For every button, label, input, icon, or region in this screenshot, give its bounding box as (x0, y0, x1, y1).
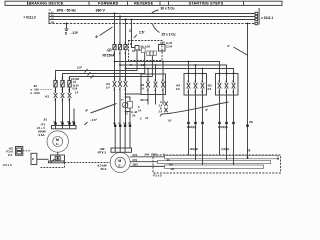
resistor grid bar 3 (165, 165, 264, 168)
tap to contactor K4 pole2 (195, 65, 197, 74)
terminal 2W (124, 125, 126, 127)
node ammeter return (125, 111, 127, 113)
right side labels (140, 44, 253, 178)
feeder column 3 below Q1 (125, 51, 127, 82)
svg-text:-F1 x 5: -F1 x 5 (153, 174, 163, 178)
dashed link A to B (23, 150, 31, 152)
resistor bank dashed enclosure (153, 155, 281, 173)
fuse-switch Q1 drop L2 (119, 17, 121, 45)
svg-text:.4A: .4A (140, 45, 144, 48)
node K2rev tap1 (147, 68, 149, 70)
node feeder2 (119, 64, 121, 66)
svg-text:NT150A: NT150A (103, 54, 116, 58)
K2rev pole 3 (161, 62, 165, 105)
node feeder3 (125, 68, 127, 70)
terminal K2 out1 (218, 122, 220, 124)
tap to contactor K4 pole1 (188, 62, 190, 74)
brake wires fuse to K1 (56, 87, 70, 93)
feeder column 1 below Q1 (114, 51, 116, 82)
node K2 box top2 (226, 73, 228, 75)
svg-text:380 V: 380 V (96, 9, 106, 13)
brake magnet dot (57, 157, 59, 159)
svg-text:STARTING STEPS: STARTING STEPS (189, 1, 224, 5)
node K2rev tap3 (162, 61, 164, 63)
leader 30x5 Cu (152, 10, 159, 14)
node PE tap (66, 23, 68, 25)
leader 25x3 Cu (153, 24, 160, 33)
K2 output wires (220, 95, 234, 122)
brake branch labels (3, 65, 97, 167)
brake feeder wire c (70, 77, 153, 81)
svg-text:·PTX 3: ·PTX 3 (97, 151, 106, 155)
fuse Q1 pole 3 (124, 45, 127, 50)
svg-text:2.6: 2.6 (208, 87, 212, 91)
contactor K1 brake contacts (54, 93, 74, 123)
svg-text:-K1: -K1 (45, 94, 50, 98)
svg-text:C.: C. (138, 107, 141, 109)
wires K1 to terminals M2 (115, 87, 126, 125)
control box labels (130, 41, 173, 67)
contactor K2 reverse box (141, 74, 166, 95)
svg-text:2U1: 2U1 (133, 153, 138, 157)
left bus bracket bar (48, 12, 50, 24)
node K4 tap2 (195, 64, 197, 66)
ammeter branch wire (126, 93, 142, 95)
node K4 box top2 (195, 73, 197, 75)
junction box B (31, 153, 37, 164)
brake magnet stem (57, 152, 59, 155)
rotor wire 2U1 (130, 156, 164, 158)
svg-text:2.4: 2.4 (106, 86, 110, 90)
svg-text:6²: 6² (86, 109, 89, 113)
rectifier box A (16, 147, 23, 156)
brake feeder gauge slashes (85, 69, 94, 79)
control unit dashed enclosure (129, 41, 163, 61)
svg-text:-D: -D (130, 43, 133, 46)
svg-text:(-A): (-A) (161, 41, 165, 44)
svg-text:-U: -U (163, 153, 166, 157)
terminal U1 (54, 122, 56, 124)
feeder column 2 below Q1 (119, 51, 121, 82)
brake magnet box (51, 155, 65, 161)
svg-text:2.5²: 2.5² (77, 65, 82, 69)
wires terminals to strip M2 (115, 127, 130, 148)
svg-text:30A 11: 30A 11 (140, 99, 148, 102)
control relay box (141, 48, 145, 53)
svg-text:30 x 5 Cu: 30 x 5 Cu (161, 7, 175, 11)
node Q1/L3 (125, 19, 127, 21)
wires outputs to resistor bank K2 (220, 125, 234, 166)
ammeter tap wire (126, 97, 131, 101)
earth tap D (65, 24, 69, 31)
svg-text:3~: 3~ (118, 163, 122, 167)
motor M1 inner circle (53, 137, 63, 147)
node K2rev tap2 (155, 64, 157, 66)
header title bar (5, 1, 282, 5)
right bus terminal marks (255, 8, 259, 25)
node PE end (247, 157, 249, 159)
fuse Q1 pole 2 (118, 45, 121, 50)
terminal K4 out2 (194, 122, 196, 124)
aux contact 2.4 lower (164, 108, 167, 113)
ammeter box (128, 101, 133, 108)
svg-text:- 2.5²: - 2.5² (90, 118, 97, 122)
resistor grid bar 2 (158, 160, 271, 163)
brake feeder wire b (63, 74, 145, 81)
motor M1 circle (47, 131, 68, 152)
svg-text:2A: 2A (132, 114, 135, 117)
svg-text:12.5A: 12.5A (73, 84, 79, 87)
fuse-switch Q1 drop L3 (125, 20, 127, 45)
node ammeter branch (125, 93, 127, 95)
svg-text:6²: 6² (130, 63, 132, 67)
wire C into control box (132, 41, 136, 48)
branch feeder phase 1 to contactors (115, 62, 220, 74)
tap to contactor K4 pole3 (202, 69, 204, 74)
node PE right (247, 23, 249, 25)
terminal K2 out3 (232, 122, 234, 124)
svg-text:6²: 6² (206, 108, 209, 112)
svg-text:4A: 4A (132, 50, 135, 53)
svg-text:2.4: 2.4 (159, 104, 163, 107)
wire B to brake (37, 158, 49, 160)
svg-text:·P1: ·P1 (41, 123, 46, 127)
svg-text:-V1: -V1 (166, 159, 170, 162)
node K4 tap3 (202, 68, 204, 70)
svg-text:2.5²: 2.5² (139, 30, 145, 34)
K2 pole 2 (225, 74, 229, 96)
svg-text:= 0111.1: = 0111.1 (261, 16, 273, 20)
node K2 box top3 (233, 73, 235, 75)
busbar L3 (49, 19, 255, 21)
svg-text:-63: -63 (33, 84, 37, 88)
terminal 2U (114, 125, 116, 127)
K2rev pole 2 (154, 65, 158, 105)
gauge tick at M1 terminals (85, 122, 88, 125)
svg-text:20 A: 20 A (101, 167, 108, 171)
junction dots (66, 13, 249, 113)
svg-text:2V1: 2V1 (133, 158, 138, 162)
branch feeder phase 3 to contactors (126, 69, 234, 74)
svg-text:2.6: 2.6 (176, 87, 180, 91)
svg-text:25 x 3 Cu: 25 x 3 Cu (162, 32, 176, 36)
terminal 2V (119, 125, 121, 127)
K4 pole 3 (201, 74, 205, 96)
svg-text:- 2.5²: - 2.5² (140, 63, 146, 67)
node K2 box top1 (219, 73, 221, 75)
terminal V1 (61, 122, 63, 124)
ammeter return stub (126, 111, 131, 113)
terminal K2 out2 (225, 122, 227, 124)
motor M2 circle (110, 153, 130, 173)
svg-text:PE: PE (247, 149, 251, 153)
svg-text:BRAKING DEVICE: BRAKING DEVICE (28, 1, 63, 5)
svg-text:-F1 x 5: -F1 x 5 (3, 163, 13, 167)
phase labels at bus start (51, 12, 54, 24)
resistor grid bar 1 (165, 155, 279, 158)
gauge slash M2 feeder (91, 104, 117, 114)
control transformer box (135, 46, 139, 51)
svg-text:= 0111.3: = 0111.3 (24, 16, 36, 20)
busbar L2 (49, 16, 255, 18)
right terminal squares (187, 73, 279, 160)
branch feeder phase 2 to contactors (120, 65, 227, 74)
svg-text:FORWARD: FORWARD (98, 1, 119, 5)
svg-text:1Z1(3)1a: 1Z1(3)1a (218, 126, 228, 129)
motor M2 terminal strip (111, 148, 132, 152)
M2 terminal squares (114, 125, 131, 127)
pin numbers Q1 bottom (114, 52, 127, 55)
brake fuse F3 pole2 (61, 81, 64, 88)
aux contact 2.4 upper (164, 102, 167, 107)
ammeter bottom wire (129, 108, 131, 125)
svg-text:a - 10A: a - 10A (31, 87, 40, 91)
wire transformer to relay (139, 49, 141, 51)
motor M2 inner circle (115, 157, 125, 167)
wire control out 3 (151, 56, 153, 77)
svg-text:1.6²: 1.6² (168, 118, 172, 122)
svg-text:-R1: -R1 (171, 168, 176, 171)
svg-text:REVERSE: REVERSE (134, 1, 153, 5)
node K4 box top3 (202, 73, 204, 75)
node C/L3 (131, 19, 133, 21)
svg-text:17(1)18: 17(1)18 (71, 79, 80, 81)
wire control out 1 (136, 50, 138, 71)
brake magnet core (55, 156, 60, 160)
K4 pole 2 (194, 74, 198, 96)
svg-text:0.5A: 0.5A (73, 88, 78, 91)
contactor K1 main contacts (113, 81, 128, 87)
contactor K2 box (216, 74, 239, 96)
terminal PE right (246, 125, 248, 127)
wire control out 2 (144, 53, 146, 74)
svg-text:2.4: 2.4 (159, 111, 163, 114)
rotor wire 2V1 (130, 161, 157, 163)
svg-text:-K2: -K2 (207, 84, 212, 88)
PE gauge leader (234, 47, 248, 55)
svg-text:3~: 3~ (56, 142, 60, 146)
svg-text:0.5A: 0.5A (145, 45, 150, 48)
svg-text:C: C (126, 112, 128, 116)
node ammeter tap (125, 96, 127, 98)
svg-text:- 2.5²: - 2.5² (71, 31, 78, 35)
wires outputs to resistor bank K4 (189, 125, 203, 166)
svg-text:2W2(2)1: 2W2(2)1 (187, 126, 197, 129)
node K4 tap1 (188, 61, 190, 63)
fuse Q1 pole 1 (113, 45, 116, 50)
control fuse block (147, 51, 156, 56)
svg-text:b - 6.6A: b - 6.6A (31, 91, 40, 95)
svg-text:2.6: 2.6 (140, 87, 144, 90)
brake base hatch (51, 159, 55, 163)
brake fuse F3 pole1 (54, 81, 57, 88)
K2 pole 3 (232, 74, 236, 96)
svg-text:6²: 6² (228, 44, 230, 48)
svg-text:-Q1: -Q1 (107, 48, 113, 52)
svg-text:1Z2(2)2: 1Z2(2)2 (190, 148, 199, 151)
svg-text:PE: PE (250, 120, 254, 124)
aux device box (159, 45, 166, 52)
svg-text:2!: 2! (32, 158, 34, 161)
coupling dashed brake to M2 (65, 162, 111, 164)
rotor wire 2W1 (130, 165, 164, 167)
pin numbers Q1 top (114, 43, 127, 45)
K2rev pole 1 (146, 69, 150, 105)
current transformer circle (122, 102, 128, 108)
svg-text:-K4: -K4 (176, 84, 181, 88)
busbar PE dashed (49, 23, 255, 25)
M2 branch labels (86, 79, 166, 171)
K4 output wires (189, 95, 203, 122)
control feed drop C (131, 20, 133, 41)
svg-text:24A 175V: 24A 175V (145, 153, 158, 157)
svg-text:2A: 2A (145, 117, 148, 120)
terminal PE M1 (73, 122, 75, 124)
terminal K4 out3 (201, 122, 203, 124)
linkage slash across outputs (160, 102, 229, 116)
K4 pole 1 (187, 74, 191, 96)
K2 pole 1 (218, 74, 222, 96)
motor M1 terminal strip (52, 126, 77, 129)
svg-text:6²: 6² (96, 35, 99, 39)
terminal K4 out1 (187, 122, 189, 124)
svg-text:(1Z(3)1: (1Z(3)1 (222, 148, 231, 151)
svg-text:.61: .61 (43, 118, 47, 122)
coupling dashed under brake (41, 163, 65, 168)
svg-text:0.6A: 0.6A (39, 133, 46, 137)
svg-text:2W1: 2W1 (133, 163, 139, 167)
brake feeder wire a (56, 71, 138, 81)
busbar L1 (49, 13, 255, 15)
PE drop right (247, 24, 249, 159)
brake fuse F3 pole3 (68, 81, 71, 88)
fuse-switch Q1 drop L1 (114, 14, 116, 45)
node feeder1 (114, 61, 116, 63)
svg-text:12 24: 12 24 (166, 46, 173, 49)
control gauge tick (134, 35, 137, 39)
current transformer diagonal (123, 103, 127, 107)
node bar1 right (277, 158, 279, 160)
M1 terminal squares (54, 122, 75, 124)
svg-text:-K1: -K1 (106, 82, 111, 86)
node K4 box top1 (188, 73, 190, 75)
svg-text:3PS - 50 Hz: 3PS - 50 Hz (57, 9, 77, 13)
brake base plate (49, 161, 65, 163)
dashed leader to fuse (41, 88, 53, 90)
terminal W1 (68, 122, 70, 124)
terminal PE M2 (129, 125, 131, 127)
svg-text:-W1: -W1 (169, 164, 174, 167)
node Q1/L1 (114, 13, 116, 15)
wire gauge marker phi2 (100, 27, 113, 36)
wires terminals to motor M1 (56, 124, 75, 126)
contactor K4 box (184, 74, 207, 96)
node Q1/L2 (119, 16, 121, 18)
